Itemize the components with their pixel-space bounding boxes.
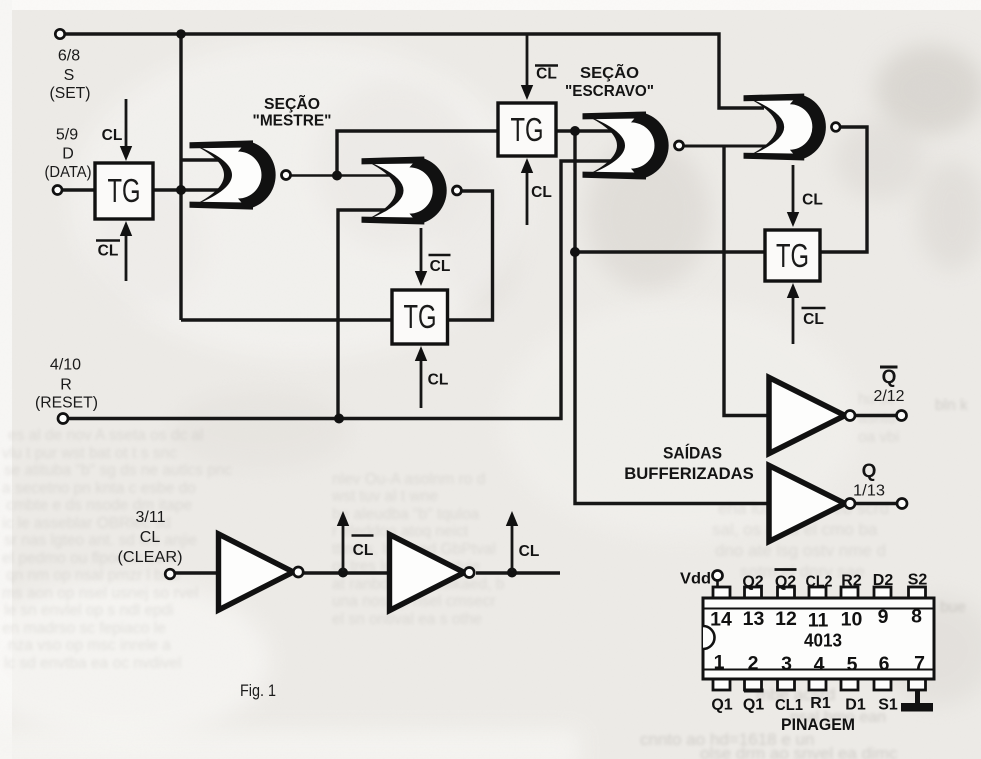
svg-text:TG: TG [511, 111, 544, 148]
svg-text:wst tuv al t wne: wst tuv al t wne [331, 488, 438, 505]
svg-text:SEÇÃO: SEÇÃO [264, 95, 320, 113]
svg-text:Q2: Q2 [742, 574, 763, 591]
svg-text:D1: D1 [845, 697, 866, 714]
svg-text:es al de nov A sseta os dc al: es al de nov A sseta os dc al [8, 427, 204, 444]
svg-text:(CLEAR): (CLEAR) [118, 549, 183, 566]
svg-text:4013: 4013 [804, 631, 842, 651]
svg-text:Q: Q [862, 461, 877, 482]
svg-text:CL: CL [353, 542, 374, 559]
svg-text:ms aon op nsel usnej so rvel: ms aon op nsel usnej so rvel [2, 585, 198, 602]
svg-text:en madrso sc fepiaco le: en madrso sc fepiaco le [2, 620, 166, 637]
svg-text:1/13: 1/13 [853, 483, 885, 500]
svg-text:6/8: 6/8 [58, 48, 80, 65]
svg-text:12: 12 [775, 608, 797, 630]
svg-text:vlu t pur wst bat ot t s snc: vlu t pur wst bat ot t s snc [2, 445, 177, 462]
svg-text:olse drm ao snvel ea dimc: olse drm ao snvel ea dimc [700, 744, 898, 759]
svg-text:S: S [64, 67, 75, 84]
svg-text:nza vso op msc inrele a: nza vso op msc inrele a [8, 637, 171, 654]
svg-text:CL2: CL2 [806, 574, 833, 591]
svg-text:SAÍDAS: SAÍDAS [663, 444, 722, 463]
svg-text:"MESTRE": "MESTRE" [253, 113, 332, 130]
svg-text:bue: bue [940, 599, 966, 616]
svg-text:CL: CL [803, 311, 824, 328]
svg-text:R2: R2 [841, 573, 862, 590]
svg-text:Q1: Q1 [743, 697, 764, 714]
svg-text:7: 7 [914, 653, 925, 675]
svg-text:CL: CL [430, 258, 451, 275]
svg-text:lc sd envtba ea oc nvdivel: lc sd envtba ea oc nvdivel [4, 655, 182, 672]
svg-text:sr nas lgteo ant. sd tes anjie: sr nas lgteo ant. sd tes anjie [4, 532, 197, 549]
svg-text:R: R [60, 377, 72, 394]
svg-text:el sn ontival ea s othe: el sn ontival ea s othe [332, 611, 482, 628]
svg-text:CL: CL [140, 529, 161, 546]
svg-text:2: 2 [748, 653, 759, 675]
svg-text:4: 4 [814, 654, 825, 676]
svg-text:CL: CL [536, 66, 557, 83]
svg-text:CL: CL [98, 243, 119, 260]
svg-text:a secetno pn knta c esbe do: a secetno pn knta c esbe do [2, 480, 196, 497]
svg-text:6: 6 [879, 653, 890, 675]
svg-text:5: 5 [847, 654, 858, 676]
svg-text:le sn envlel op s ndl epdi: le sn envlel op s ndl epdi [4, 602, 174, 619]
svg-text:(SET): (SET) [50, 85, 91, 102]
svg-text:D: D [62, 146, 74, 163]
svg-text:3/11: 3/11 [136, 509, 166, 526]
svg-text:CL1: CL1 [775, 697, 803, 714]
svg-text:PINAGEM: PINAGEM [781, 716, 855, 734]
svg-text:CL: CL [102, 127, 123, 144]
svg-text:CL: CL [531, 184, 552, 201]
svg-text:be aleudba "b" tquloa: be aleudba "b" tquloa [332, 506, 480, 523]
svg-text:5/9: 5/9 [56, 127, 78, 144]
svg-text:nlev Ou-A asolnm ro d: nlev Ou-A asolnm ro d [332, 471, 485, 488]
svg-text:se atituba "b" sg ds ne autlcs: se atituba "b" sg ds ne autlcs pnc [4, 462, 232, 479]
svg-text:Fig. 1: Fig. 1 [240, 681, 276, 700]
svg-text:qn nm op nsal pmzr l bno: qn nm op nsal pmzr l bno [6, 567, 180, 584]
svg-text:(DATA): (DATA) [45, 164, 92, 181]
svg-text:3: 3 [781, 653, 792, 675]
svg-text:CL: CL [519, 543, 540, 560]
svg-text:TG: TG [108, 172, 141, 209]
svg-text:TG: TG [404, 298, 437, 335]
svg-text:13: 13 [743, 608, 765, 630]
svg-text:CL: CL [428, 372, 449, 389]
svg-text:dno ate lsg ostv nme d: dno ate lsg ostv nme d [715, 541, 886, 560]
svg-text:TG: TG [776, 237, 809, 274]
svg-text:"ESCRAVO": "ESCRAVO" [565, 83, 654, 100]
svg-text:asntd: asntd [858, 410, 896, 427]
svg-text:10: 10 [841, 609, 863, 631]
svg-text:2/12: 2/12 [874, 388, 905, 405]
svg-text:CL: CL [802, 192, 823, 209]
svg-text:S2: S2 [908, 572, 928, 589]
svg-text:Q: Q [882, 367, 897, 388]
svg-text:4/10: 4/10 [50, 357, 81, 374]
svg-text:R1: R1 [810, 695, 831, 712]
svg-text:Q2: Q2 [775, 574, 796, 591]
svg-text:14: 14 [710, 609, 732, 631]
svg-text:Vdd: Vdd [680, 571, 711, 588]
svg-text:bln k: bln k [935, 397, 968, 414]
svg-text:9: 9 [878, 606, 889, 628]
svg-text:BUFFERIZADAS: BUFFERIZADAS [624, 464, 754, 483]
svg-text:S1: S1 [878, 697, 898, 714]
svg-text:SEÇÃO: SEÇÃO [580, 64, 639, 82]
svg-text:8: 8 [911, 606, 922, 628]
svg-text:1: 1 [714, 652, 725, 674]
svg-text:D2: D2 [873, 572, 894, 589]
svg-text:11: 11 [808, 610, 829, 632]
svg-text:oa vbi: oa vbi [858, 429, 899, 446]
svg-text:(RESET): (RESET) [35, 395, 98, 412]
svg-text:Q1: Q1 [711, 697, 732, 714]
